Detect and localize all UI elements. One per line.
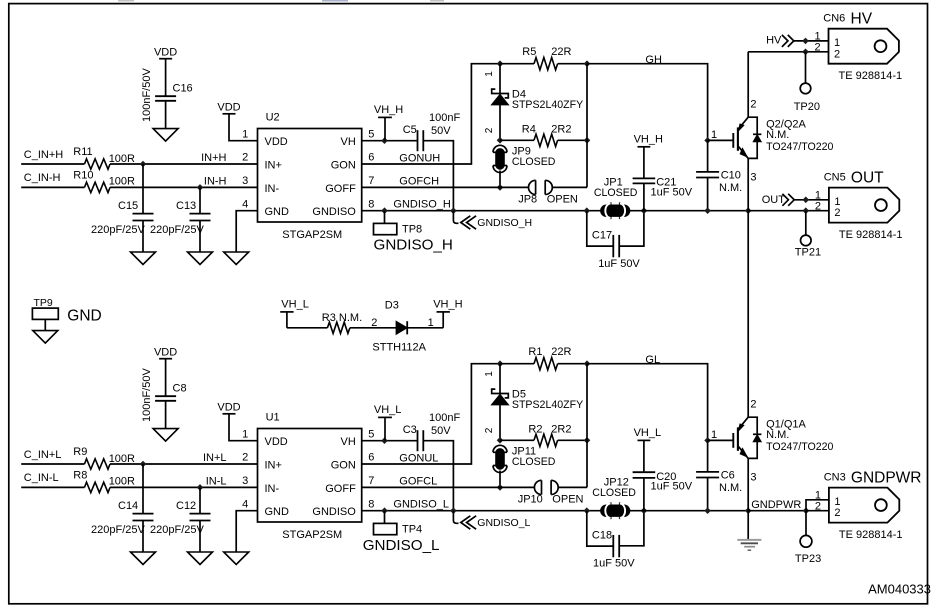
svg-text:100R: 100R <box>109 176 135 188</box>
wire collector riser Q1 to OUT <box>747 211 749 418</box>
resistor R3 N.M. <box>327 322 350 333</box>
wire <box>44 319 46 330</box>
svg-text:2: 2 <box>834 48 840 60</box>
junction <box>381 507 388 514</box>
svg-text:GOFCL: GOFCL <box>399 475 437 487</box>
diode D5 STPS2L40ZFY <box>499 364 501 394</box>
wire <box>21 186 84 188</box>
wire <box>805 511 807 536</box>
gate driver U2 STGAP2SM <box>258 129 362 223</box>
junction <box>497 437 504 444</box>
wire <box>794 40 829 42</box>
svg-text:HV: HV <box>766 34 782 46</box>
junction <box>497 60 504 67</box>
wire <box>142 221 144 253</box>
transistor Q1/Q1A IGBT <box>732 433 734 448</box>
svg-text:OPEN: OPEN <box>547 194 578 206</box>
wire emitter riser Q1 <box>747 458 749 510</box>
capacitor C14 220pF/25V <box>142 464 144 514</box>
svg-text:STGAP2SM: STGAP2SM <box>282 529 342 541</box>
capacitor C8 100nF/50V <box>155 395 176 397</box>
svg-text:2: 2 <box>750 398 756 410</box>
svg-text:JP10: JP10 <box>518 494 543 506</box>
svg-text:TP21: TP21 <box>795 246 821 258</box>
svg-text:CLOSED: CLOSED <box>594 187 638 199</box>
wire <box>805 211 807 236</box>
svg-text:1uF 50V: 1uF 50V <box>651 481 693 493</box>
svg-text:VDD: VDD <box>265 136 288 148</box>
connector CN5 OUT <box>829 188 899 223</box>
wire <box>362 364 500 464</box>
svg-text:TP20: TP20 <box>794 101 820 113</box>
svg-text:1: 1 <box>484 371 495 377</box>
svg-text:OUT: OUT <box>762 194 786 206</box>
capacitor C17 1uF 50V <box>587 211 613 246</box>
junction <box>381 207 388 214</box>
jumper JP11 (closed) <box>493 451 507 453</box>
svg-text:1: 1 <box>242 128 248 140</box>
ground <box>153 129 178 142</box>
svg-text:TP8: TP8 <box>402 224 422 236</box>
junction <box>704 437 711 444</box>
svg-text:R4: R4 <box>522 123 536 135</box>
capacitor C21 1uF 50V <box>633 177 656 179</box>
wire <box>806 500 829 511</box>
svg-text:TE 928814-1: TE 928814-1 <box>839 229 903 241</box>
svg-text:GND: GND <box>265 506 290 518</box>
svg-text:AM040333: AM040333 <box>868 582 931 597</box>
connector CN3 GNDPWR <box>829 488 899 523</box>
wire <box>806 510 829 512</box>
svg-text:C10: C10 <box>721 169 741 181</box>
svg-text:50V: 50V <box>431 425 451 437</box>
svg-text:1: 1 <box>815 189 821 201</box>
wire <box>552 186 587 188</box>
resistor R10 100R <box>85 182 111 192</box>
gate driver U1 STGAP2SM <box>258 429 362 523</box>
resistor R11 100R <box>85 159 111 169</box>
wire <box>21 463 84 465</box>
svg-text:GNDISO_L: GNDISO_L <box>393 499 449 511</box>
svg-text:CLOSED: CLOSED <box>512 456 556 468</box>
svg-text:GOFF: GOFF <box>325 183 356 195</box>
resistor R4 2R2 <box>500 139 534 141</box>
svg-text:GOFCH: GOFCH <box>399 175 439 187</box>
svg-text:VH_H: VH_H <box>374 104 403 116</box>
capacitor C18 1uF 50V <box>587 511 613 546</box>
ground <box>33 331 58 344</box>
wire <box>165 101 167 129</box>
svg-text:8: 8 <box>368 198 374 210</box>
test point TP8 <box>384 211 386 224</box>
junction <box>803 197 810 204</box>
wire <box>558 486 587 488</box>
svg-text:N.M.: N.M. <box>719 482 742 494</box>
svg-text:100R: 100R <box>109 153 135 165</box>
wire <box>586 364 588 488</box>
svg-text:C12: C12 <box>176 500 196 512</box>
wire <box>199 521 201 553</box>
resistor R2 2R2 <box>500 439 534 441</box>
body diode of Q2/Q2A <box>748 117 757 134</box>
svg-text:1: 1 <box>711 129 717 141</box>
ground <box>131 552 156 565</box>
wire <box>499 471 501 488</box>
svg-text:R8: R8 <box>73 470 87 482</box>
wire <box>229 414 258 441</box>
wire <box>21 486 84 488</box>
svg-text:C3: C3 <box>403 424 417 436</box>
svg-text:VDD: VDD <box>265 436 288 448</box>
junction <box>381 137 388 144</box>
svg-text:220pF/25V: 220pF/25V <box>150 224 204 236</box>
svg-text:IN+H: IN+H <box>201 152 226 164</box>
svg-text:GONUL: GONUL <box>399 452 438 464</box>
junction <box>584 207 591 214</box>
svg-text:GNDISO: GNDISO <box>312 506 356 518</box>
diode D3 STTH112A <box>396 321 407 334</box>
svg-text:GON: GON <box>331 459 356 471</box>
svg-text:C16: C16 <box>173 83 193 95</box>
ground <box>131 252 156 265</box>
svg-text:TE 928814-1: TE 928814-1 <box>839 70 903 82</box>
svg-text:R2: R2 <box>528 423 542 435</box>
wire <box>587 364 708 441</box>
svg-text:IN+L: IN+L <box>203 452 227 464</box>
test point TP21 <box>801 235 812 246</box>
wire <box>362 440 418 442</box>
svg-text:CN6: CN6 <box>823 13 845 25</box>
svg-text:VDD: VDD <box>217 102 240 114</box>
transistor Q2/Q2A IGBT <box>732 133 734 148</box>
svg-text:GON: GON <box>331 159 356 171</box>
wire <box>707 178 709 211</box>
junction <box>584 437 591 444</box>
svg-text:C17: C17 <box>592 230 612 242</box>
svg-text:C_IN+L: C_IN+L <box>24 449 62 461</box>
svg-text:2: 2 <box>834 207 840 219</box>
wire <box>362 486 535 488</box>
junction <box>641 507 648 514</box>
wire <box>165 401 167 429</box>
svg-text:VDD: VDD <box>154 47 177 59</box>
svg-text:IN+: IN+ <box>265 459 282 471</box>
resistor R5 22R <box>500 63 534 65</box>
wire <box>805 52 807 83</box>
svg-text:IN-H: IN-H <box>204 175 227 187</box>
svg-text:R11: R11 <box>73 146 92 158</box>
svg-text:R3 N.M.: R3 N.M. <box>322 312 362 324</box>
svg-text:VH_L: VH_L <box>374 404 402 416</box>
svg-text:100R: 100R <box>109 453 135 465</box>
svg-text:100nF/50V: 100nF/50V <box>141 68 153 122</box>
svg-text:IN-: IN- <box>265 483 280 495</box>
capacitor C6 N.M. <box>707 440 709 472</box>
svg-text:2R2: 2R2 <box>551 123 571 135</box>
junction <box>381 437 388 444</box>
ground <box>153 429 178 442</box>
ground <box>224 552 249 565</box>
wire <box>199 221 201 253</box>
svg-text:C8: C8 <box>173 383 187 395</box>
junction <box>140 461 147 468</box>
svg-text:100R: 100R <box>109 476 135 488</box>
svg-text:N.M.: N.M. <box>766 129 789 141</box>
diode D4 STPS2L40ZFY <box>499 64 501 94</box>
svg-text:C15: C15 <box>118 200 138 212</box>
svg-text:22R: 22R <box>551 46 571 58</box>
svg-text:IN+: IN+ <box>265 159 282 171</box>
svg-text:220pF/25V: 220pF/25V <box>91 524 145 536</box>
svg-text:1: 1 <box>711 429 717 441</box>
junction <box>704 137 711 144</box>
capacitor C16 100nF/50V <box>155 95 176 97</box>
svg-text:TE 928814-1: TE 928814-1 <box>839 529 903 541</box>
svg-text:C6: C6 <box>721 469 735 481</box>
svg-text:TP4: TP4 <box>402 524 422 536</box>
svg-text:6: 6 <box>368 452 374 464</box>
svg-text:4: 4 <box>242 498 248 510</box>
svg-text:1: 1 <box>814 30 820 42</box>
test point TP20 <box>800 83 811 94</box>
wire <box>629 510 749 512</box>
svg-text:GNDISO: GNDISO <box>312 206 356 218</box>
resistor R9 100R <box>85 459 111 469</box>
junction <box>497 484 504 491</box>
wire <box>362 64 500 164</box>
svg-text:R10: R10 <box>73 170 93 182</box>
svg-text:STGAP2SM: STGAP2SM <box>282 229 342 241</box>
earth ground <box>747 511 749 540</box>
svg-text:GONUH: GONUH <box>399 152 440 164</box>
capacitor C20 1uF 50V <box>633 471 656 473</box>
wire <box>587 64 708 141</box>
junction <box>497 184 504 191</box>
junction <box>802 38 809 45</box>
svg-text:220pF/25V: 220pF/25V <box>150 524 204 536</box>
jumper JP1 (closed) <box>610 202 612 219</box>
svg-text:2: 2 <box>815 501 821 513</box>
svg-text:GNDISO_L: GNDISO_L <box>363 537 440 554</box>
ground <box>188 252 213 265</box>
junction <box>641 207 648 214</box>
wire <box>629 210 749 212</box>
junction <box>704 507 711 514</box>
wire <box>362 140 418 142</box>
svg-text:GOFF: GOFF <box>325 483 356 495</box>
svg-text:2R2: 2R2 <box>551 423 571 435</box>
junction <box>802 49 809 56</box>
svg-text:5: 5 <box>368 128 374 140</box>
svg-text:TO247/TO220: TO247/TO220 <box>766 141 833 153</box>
junction <box>803 207 810 214</box>
ground <box>224 252 249 265</box>
svg-text:GNDISO_H: GNDISO_H <box>393 199 451 211</box>
svg-text:IN-L: IN-L <box>206 475 227 487</box>
net flag GNDISO_L <box>453 511 458 524</box>
wire <box>748 210 829 212</box>
test point TP23 <box>800 535 812 547</box>
capacitor C5 100nF 50V <box>417 130 419 151</box>
svg-text:220pF/25V: 220pF/25V <box>91 224 145 236</box>
junction <box>584 507 591 514</box>
junction <box>197 484 204 491</box>
wire <box>643 478 645 511</box>
svg-text:C13: C13 <box>176 200 196 212</box>
svg-text:1: 1 <box>834 37 840 49</box>
wire <box>499 171 501 188</box>
svg-text:U2: U2 <box>266 112 280 124</box>
svg-text:2: 2 <box>242 452 248 464</box>
junction <box>803 507 810 514</box>
svg-text:100nF: 100nF <box>429 112 460 124</box>
svg-text:2: 2 <box>242 152 248 164</box>
svg-text:JP8: JP8 <box>518 194 537 206</box>
svg-text:U1: U1 <box>266 412 280 424</box>
svg-text:1: 1 <box>242 428 248 440</box>
connector CN6 HV <box>829 29 899 64</box>
junction <box>745 507 752 514</box>
wire GNDISO_L rail <box>362 510 602 512</box>
test point TP4 <box>384 511 386 524</box>
svg-text:R1: R1 <box>528 346 542 358</box>
wire <box>748 51 828 53</box>
svg-text:7: 7 <box>368 175 374 187</box>
wire <box>110 163 258 165</box>
junction <box>497 137 504 144</box>
svg-text:D3: D3 <box>385 300 399 312</box>
wire <box>21 163 84 165</box>
svg-text:IN-: IN- <box>265 183 280 195</box>
wire <box>423 441 453 511</box>
svg-text:STTH112A: STTH112A <box>372 341 426 353</box>
jumper JP12 (closed) <box>610 502 612 519</box>
svg-text:2: 2 <box>484 427 495 433</box>
wire GNDISO_H rail <box>362 210 602 212</box>
junction <box>584 137 591 144</box>
wire <box>110 463 258 465</box>
jumper JP8 (open) <box>535 180 537 194</box>
wire <box>794 199 829 201</box>
capacitor C13 220pF/25V <box>199 187 201 213</box>
svg-text:GNDPWR: GNDPWR <box>751 499 801 511</box>
wire <box>708 439 734 441</box>
svg-text:CN3: CN3 <box>824 471 846 483</box>
svg-text:5: 5 <box>368 428 374 440</box>
svg-text:GNDISO_H: GNDISO_H <box>477 217 532 229</box>
wire <box>350 327 396 329</box>
capacitor C12 220pF/25V <box>199 487 201 513</box>
svg-text:GNDPWR: GNDPWR <box>851 469 922 486</box>
svg-text:1: 1 <box>834 496 840 508</box>
svg-text:TP9: TP9 <box>34 297 53 309</box>
svg-text:2: 2 <box>371 317 377 329</box>
svg-text:50V: 50V <box>431 125 451 137</box>
resistor R8 100R <box>85 482 111 492</box>
svg-text:C_IN-H: C_IN-H <box>24 172 61 184</box>
svg-text:1: 1 <box>428 317 434 329</box>
svg-text:GND: GND <box>67 307 101 324</box>
svg-text:CLOSED: CLOSED <box>592 487 636 499</box>
junction <box>584 360 591 367</box>
wire <box>110 486 258 488</box>
svg-text:OPEN: OPEN <box>552 494 583 506</box>
svg-text:N.M.: N.M. <box>719 182 742 194</box>
wire <box>708 139 734 141</box>
svg-text:GND: GND <box>265 206 290 218</box>
svg-text:22R: 22R <box>551 346 571 358</box>
svg-text:VH_H: VH_H <box>433 299 462 311</box>
wire <box>236 511 257 552</box>
net flag GNDISO_H <box>453 211 458 224</box>
svg-text:C14: C14 <box>118 500 138 512</box>
capacitor C15 220pF/25V <box>142 164 144 214</box>
svg-text:OUT: OUT <box>851 169 884 186</box>
wire <box>423 141 453 211</box>
jumper JP10 (open) <box>541 480 543 494</box>
junction <box>450 507 457 514</box>
svg-text:8: 8 <box>368 498 374 510</box>
svg-text:CLOSED: CLOSED <box>512 156 556 168</box>
svg-text:VH_L: VH_L <box>634 427 662 439</box>
wire <box>287 327 328 329</box>
ground <box>188 552 213 565</box>
svg-text:VH: VH <box>341 436 356 448</box>
wire <box>110 186 258 188</box>
wire <box>362 186 529 188</box>
svg-text:3: 3 <box>242 475 248 487</box>
svg-text:VH: VH <box>341 136 356 148</box>
svg-text:1: 1 <box>815 489 821 501</box>
svg-text:3: 3 <box>750 472 756 484</box>
svg-text:C_IN-L: C_IN-L <box>24 472 59 484</box>
capacitor C10 N.M. <box>707 140 709 172</box>
svg-text:HV: HV <box>851 11 873 28</box>
svg-text:R9: R9 <box>73 446 87 458</box>
svg-text:STPS2L40ZFY: STPS2L40ZFY <box>512 399 583 411</box>
svg-text:C18: C18 <box>592 530 612 542</box>
svg-text:C5: C5 <box>403 124 417 136</box>
svg-text:TO247/TO220: TO247/TO220 <box>766 441 833 453</box>
svg-text:1: 1 <box>484 71 495 77</box>
svg-text:GNDISO_H: GNDISO_H <box>374 236 453 253</box>
svg-text:CN5: CN5 <box>824 171 846 183</box>
svg-text:N.M.: N.M. <box>766 429 789 441</box>
svg-text:2: 2 <box>750 98 756 110</box>
junction <box>745 207 752 214</box>
wire <box>707 478 709 511</box>
svg-text:C_IN+H: C_IN+H <box>24 149 63 161</box>
junction <box>497 360 504 367</box>
svg-text:1uF 50V: 1uF 50V <box>593 558 635 570</box>
svg-text:R5: R5 <box>522 46 536 58</box>
svg-text:1uF 50V: 1uF 50V <box>598 258 640 270</box>
svg-text:3: 3 <box>242 175 248 187</box>
wire <box>748 510 806 512</box>
svg-text:VH_H: VH_H <box>634 134 663 146</box>
junction <box>140 161 147 168</box>
svg-text:1uF 50V: 1uF 50V <box>651 187 693 199</box>
wire emitter riser Q2 <box>747 158 749 210</box>
svg-text:VDD: VDD <box>154 347 177 359</box>
svg-text:VH_L: VH_L <box>281 299 309 311</box>
svg-text:2: 2 <box>484 127 495 133</box>
svg-text:3: 3 <box>750 172 756 184</box>
junction <box>704 207 711 214</box>
svg-text:GNDISO_L: GNDISO_L <box>477 517 530 529</box>
body diode of Q1/Q1A <box>748 417 757 434</box>
wire <box>236 211 257 252</box>
